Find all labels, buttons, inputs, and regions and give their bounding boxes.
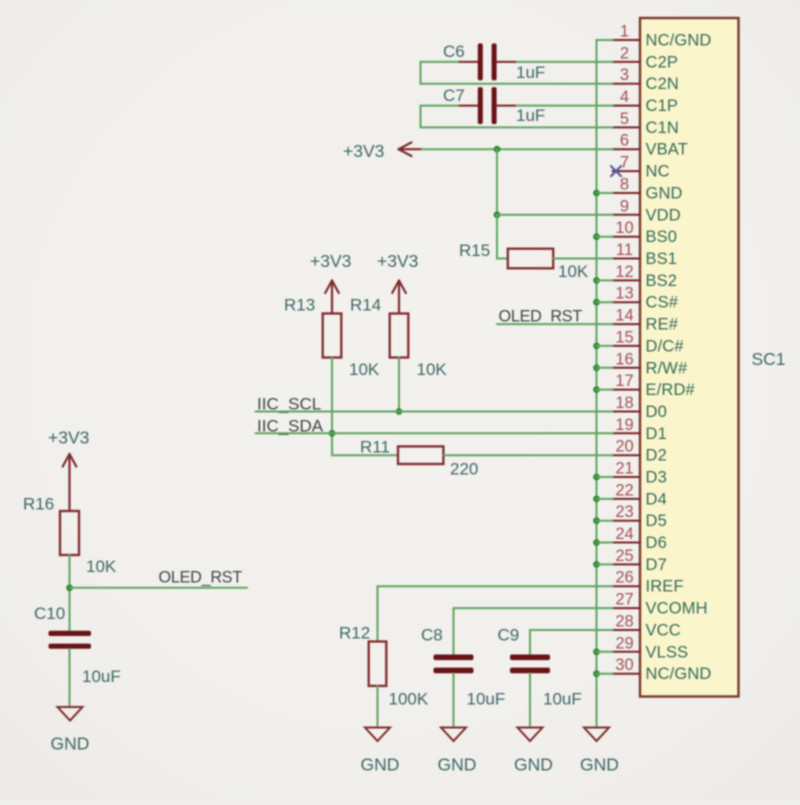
wire C1N row pin 5: [421, 126, 613, 128]
resistor R15: [508, 249, 553, 269]
svg-text:GND: GND: [361, 755, 400, 775]
wire bus to pin 12: [597, 279, 613, 281]
svg-text:3: 3: [620, 66, 629, 84]
pin 18 stub: [613, 411, 641, 413]
resistor R11: [398, 446, 443, 464]
svg-text:+3V3: +3V3: [48, 428, 89, 448]
svg-text:1: 1: [620, 23, 629, 41]
junction bus pin 15: [593, 343, 600, 350]
svg-text:14: 14: [615, 307, 633, 325]
svg-text:C7: C7: [443, 86, 465, 105]
svg-text:OLED_RST: OLED_RST: [159, 569, 243, 587]
svg-text:26: 26: [615, 569, 633, 587]
pin 16 stub: [613, 367, 641, 369]
svg-text:GND: GND: [514, 755, 553, 775]
power symbol +3V3 (R13): [331, 281, 333, 314]
wire IREF pin 26: [378, 585, 613, 587]
svg-text:10K: 10K: [349, 360, 380, 379]
pin 3 stub: [613, 83, 641, 85]
IC SC1 body: [640, 18, 739, 697]
pin 7 stub: [613, 170, 641, 172]
svg-text:GND: GND: [438, 755, 477, 775]
wire IIC_SDA to pin 19: [256, 432, 613, 434]
capacitor C7: [478, 87, 483, 124]
no-connect cross pin 7: [611, 166, 621, 176]
wire C2N row pin 3: [421, 83, 613, 85]
pin 13 stub: [613, 301, 641, 303]
wire R13 down to R11 row: [331, 358, 333, 456]
svg-text:BS2: BS2: [646, 272, 678, 290]
svg-text:25: 25: [615, 547, 633, 565]
svg-text:VCC: VCC: [646, 622, 681, 640]
svg-text:E/RD#: E/RD#: [646, 381, 696, 399]
svg-text:D/C#: D/C#: [646, 337, 685, 355]
capacitor C10: [49, 631, 92, 636]
junction bus pin 8: [593, 190, 600, 197]
svg-text:1uF: 1uF: [516, 63, 545, 82]
svg-text:D4: D4: [646, 490, 667, 508]
wire bus to pin 13: [597, 301, 613, 303]
pin 20 stub: [613, 454, 641, 456]
wire C10 to GND: [69, 649, 71, 707]
svg-text:+3V3: +3V3: [310, 251, 351, 271]
wire bus to pin 22: [597, 498, 613, 500]
wire bus to pin 23: [597, 520, 613, 522]
pin 21 stub: [613, 476, 641, 478]
svg-text:10: 10: [615, 219, 633, 237]
svg-text:R15: R15: [459, 241, 490, 260]
junction bus pin 16: [593, 364, 600, 371]
svg-text:D5: D5: [646, 512, 667, 530]
ground symbol (R12): [365, 728, 390, 742]
svg-text:RE#: RE#: [646, 316, 679, 334]
pin 17 stub: [613, 389, 641, 391]
junction bus pin 21: [593, 474, 600, 481]
svg-text:10uF: 10uF: [467, 690, 506, 709]
svg-text:8: 8: [620, 176, 629, 194]
wire R11 to pin 20: [443, 454, 612, 456]
wire bus to pin 17: [597, 389, 613, 391]
svg-text:6: 6: [620, 132, 629, 150]
svg-text:C1P: C1P: [646, 97, 679, 115]
svg-text:5: 5: [620, 110, 629, 128]
svg-text:+3V3: +3V3: [343, 141, 384, 161]
pin 14 stub: [613, 323, 641, 325]
junction bus pin 10: [593, 233, 600, 240]
ground symbol (C8): [441, 728, 466, 742]
pin 25 stub: [613, 563, 641, 565]
pin 15 stub: [613, 345, 641, 347]
svg-text:CS#: CS#: [646, 294, 679, 312]
wire pin1 to bus: [597, 39, 613, 41]
svg-text:23: 23: [615, 503, 633, 521]
wire VBAT down to VDD: [496, 149, 498, 215]
ground symbol (C10): [58, 707, 83, 721]
pin 28 stub: [613, 629, 641, 631]
svg-text:17: 17: [615, 372, 633, 390]
power symbol +3V3 (VBAT): [399, 148, 422, 150]
svg-text:NC/GND: NC/GND: [646, 665, 712, 683]
svg-text:+3V3: +3V3: [377, 251, 418, 271]
svg-text:4: 4: [620, 88, 629, 106]
resistor R12: [369, 642, 387, 686]
svg-text:D7: D7: [646, 556, 667, 574]
svg-text:29: 29: [615, 634, 633, 652]
wire VCOMH down to C8: [453, 608, 455, 655]
wire C7 bend down: [420, 106, 422, 128]
svg-text:R16: R16: [23, 495, 54, 514]
pin 30 stub: [613, 673, 641, 675]
junction bus pin 23: [593, 517, 600, 524]
pin 9 stub: [613, 214, 641, 216]
junction bus pin 12: [593, 277, 600, 284]
svg-text:13: 13: [615, 285, 633, 303]
svg-text:C6: C6: [443, 42, 465, 61]
pin 1 stub: [613, 39, 641, 41]
svg-text:D6: D6: [646, 534, 667, 552]
svg-text:GND: GND: [646, 185, 683, 203]
svg-text:10uF: 10uF: [82, 667, 121, 686]
svg-text:10K: 10K: [558, 262, 589, 281]
svg-text:D3: D3: [646, 469, 667, 487]
wire bus to pin 15: [597, 345, 613, 347]
junction OLED_RST node: [66, 584, 73, 591]
pin 27 stub: [613, 607, 641, 609]
power symbol +3V3 (R16): [68, 454, 70, 511]
junction bus pin 30: [593, 670, 600, 677]
ground symbol (bus): [584, 728, 609, 742]
wire IIC_SCL to pin 18: [256, 411, 613, 413]
pin 12 stub: [613, 279, 641, 281]
svg-text:19: 19: [615, 416, 633, 434]
pin 26 stub: [613, 585, 641, 587]
svg-text:VDD: VDD: [646, 206, 681, 224]
wire bus to pin 29: [597, 651, 613, 653]
svg-text:10K: 10K: [86, 557, 117, 576]
pin 4 stub: [613, 105, 641, 107]
pin 2 stub: [613, 61, 641, 63]
wire VCOMH pin 27: [454, 607, 613, 609]
wire C6 right to pin 2: [517, 61, 613, 63]
pin 23 stub: [613, 520, 641, 522]
wire C7 left to bend: [421, 105, 459, 107]
svg-text:16: 16: [615, 350, 633, 368]
svg-text:R14: R14: [350, 296, 381, 315]
junction bus pin 17: [593, 386, 600, 393]
junction VBAT branch: [494, 146, 501, 153]
svg-text:18: 18: [615, 394, 633, 412]
wire VDD row pin 9: [497, 214, 613, 216]
wire OLED_RST to pin 14: [497, 323, 613, 325]
svg-text:C2N: C2N: [646, 75, 679, 93]
wire to R15 left: [497, 258, 508, 260]
wire C8 to GND: [453, 673, 455, 727]
svg-text:NC: NC: [646, 163, 670, 181]
svg-text:C10: C10: [34, 604, 65, 623]
resistor R16: [60, 511, 79, 555]
junction bus pin 24: [593, 539, 600, 546]
resistor R14: [390, 314, 409, 358]
wire VDD down to R15: [496, 215, 498, 259]
svg-text:10K: 10K: [417, 360, 448, 379]
pin 6 stub: [613, 148, 641, 150]
pin 8 stub: [613, 192, 641, 194]
pin 24 stub: [613, 542, 641, 544]
svg-text:OLED_RST: OLED_RST: [499, 308, 583, 326]
svg-text:R12: R12: [339, 624, 370, 643]
wire R16 to junction: [69, 555, 71, 631]
junction R13 on IIC_SDA: [329, 430, 336, 437]
wire C6 bend down: [420, 62, 422, 84]
wire C7 right to pin 4: [517, 105, 613, 107]
svg-text:C2P: C2P: [646, 53, 679, 71]
wire bus to pin 10: [597, 236, 613, 238]
svg-text:BS0: BS0: [646, 228, 678, 246]
svg-text:20: 20: [615, 438, 633, 456]
svg-text:D0: D0: [646, 403, 667, 421]
svg-text:GND: GND: [51, 734, 90, 754]
svg-text:VLSS: VLSS: [646, 643, 689, 661]
svg-text:BS1: BS1: [646, 250, 678, 268]
pin 19 stub: [613, 432, 641, 434]
capacitor C8: [434, 655, 474, 661]
svg-text:30: 30: [615, 656, 633, 674]
svg-text:C1N: C1N: [646, 119, 679, 137]
wire GND bus vertical: [596, 40, 598, 727]
wire bus to pin 24: [597, 542, 613, 544]
svg-text:SC1: SC1: [752, 349, 786, 369]
wire bus to pin 8: [597, 192, 613, 194]
pin 29 stub: [613, 651, 641, 653]
junction bus pin 25: [593, 561, 600, 568]
svg-text:VCOMH: VCOMH: [646, 600, 708, 618]
wire VCC pin 28: [530, 629, 613, 631]
wire bus to pin 21: [597, 476, 613, 478]
resistor R13: [323, 314, 342, 358]
wire IREF down to R12: [377, 586, 379, 641]
svg-text:R11: R11: [360, 438, 390, 457]
svg-text:VBAT: VBAT: [646, 141, 688, 159]
pin 5 stub: [613, 126, 641, 128]
wire VBAT row pin 6: [422, 148, 613, 150]
wire R14 down to IIC_SCL: [398, 358, 400, 412]
svg-text:IREF: IREF: [646, 578, 684, 596]
svg-text:22: 22: [615, 481, 633, 499]
wire VCC down to C9: [529, 630, 531, 655]
svg-text:11: 11: [616, 241, 633, 259]
wire R11 row left: [332, 454, 398, 456]
svg-text:27: 27: [615, 591, 633, 609]
svg-text:D1: D1: [646, 425, 667, 443]
svg-text:NC/GND: NC/GND: [646, 32, 712, 50]
svg-text:R13: R13: [284, 296, 315, 315]
ground symbol (C9): [518, 728, 543, 742]
svg-text:C9: C9: [498, 626, 520, 645]
junction bus pin 13: [593, 299, 600, 306]
capacitor C9: [510, 655, 550, 661]
svg-text:100K: 100K: [389, 690, 429, 709]
svg-text:21: 21: [615, 460, 633, 478]
svg-text:9: 9: [620, 197, 629, 215]
svg-text:2: 2: [620, 44, 629, 62]
wire bus to pin 30: [597, 673, 613, 675]
junction VDD branch: [494, 211, 501, 218]
wire C6 left to bend: [421, 61, 459, 63]
svg-text:24: 24: [615, 525, 633, 543]
svg-text:12: 12: [615, 263, 633, 281]
svg-text:28: 28: [615, 613, 633, 631]
svg-text:220: 220: [450, 460, 478, 479]
wire C9 to GND: [529, 673, 531, 727]
svg-text:R/W#: R/W#: [646, 359, 689, 377]
svg-text:15: 15: [615, 328, 633, 346]
svg-text:7: 7: [620, 154, 629, 172]
wire OLED_RST left: [70, 587, 248, 589]
junction bus pin 22: [593, 496, 600, 503]
wire bus to pin 25: [597, 563, 613, 565]
pin 11 stub: [613, 258, 641, 260]
junction bus pin 29: [593, 648, 600, 655]
wire R15 to pin 11: [553, 258, 612, 260]
svg-text:C8: C8: [421, 626, 443, 645]
power symbol +3V3 (R14): [398, 281, 400, 314]
svg-text:D2: D2: [646, 447, 667, 465]
svg-text:GND: GND: [580, 755, 619, 775]
wire R12 to GND: [377, 686, 379, 728]
svg-text:1uF: 1uF: [516, 106, 545, 125]
capacitor C6: [478, 43, 483, 80]
pin 22 stub: [613, 498, 641, 500]
wire bus to pin 16: [597, 367, 613, 369]
svg-text:10uF: 10uF: [543, 690, 582, 709]
junction R14 on IIC_SCL: [396, 408, 403, 415]
pin 10 stub: [613, 236, 641, 238]
